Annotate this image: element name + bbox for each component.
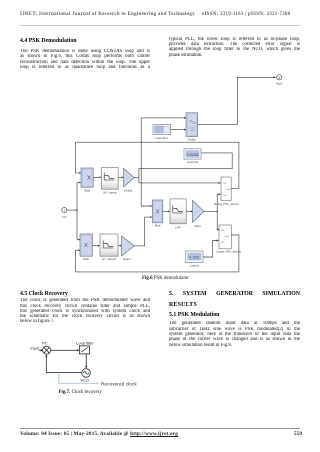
wire: main feedback line from Verilog1 output — [76, 142, 239, 188]
wire: Constant1 to Verilog2 in2 — [203, 241, 217, 258]
svg-text:Out1: Out1 — [225, 235, 231, 238]
wire: loop filter down to VCO — [85, 354, 87, 367]
svg-text:PC: PC — [42, 340, 48, 345]
block gain Gain (triangle) — [193, 200, 205, 228]
wire: FIR2 to Gain2 — [118, 245, 120, 247]
svg-text:Lower1: Lower1 — [189, 264, 199, 268]
right column paragraph 2 — [169, 321, 300, 348]
figure 7 caption — [59, 390, 102, 395]
heading 5 line 2 — [169, 302, 197, 308]
svg-text:Verilog_PSK_demod: Verilog_PSK_demod — [214, 202, 239, 206]
header right text — [202, 12, 290, 17]
wire: LPF to Gain3 — [186, 210, 191, 212]
svg-text:VCO: VCO — [80, 377, 88, 382]
footer rule — [20, 427, 300, 430]
right column paragraph 1 — [169, 37, 300, 58]
svg-text:0 10203: 0 10203 — [187, 153, 199, 157]
wire: gain node to Verilog1 input 1 — [139, 182, 219, 184]
svg-text:0 1023: 0 1023 — [190, 256, 200, 260]
wire: mixer to loop filter — [51, 349, 78, 351]
svg-text:Costas_PSK_demod: Costas_PSK_demod — [216, 250, 241, 254]
wire: input arrow into mixer — [39, 349, 41, 351]
block multiplier Mult2 — [80, 234, 92, 261]
svg-text:Loop filter: Loop filter — [76, 341, 94, 346]
block subsystem Verilog1 — [214, 177, 239, 206]
block NCO (Treble) — [186, 113, 198, 142]
svg-text:Lower12: Lower12 — [187, 160, 199, 164]
heading 4.5 — [20, 291, 68, 297]
svg-text:Input: Input — [30, 345, 40, 350]
svg-text:LP_Interp1: LP_Interp1 — [102, 257, 117, 261]
svg-text:Out1: Out1 — [276, 82, 283, 86]
svg-text:In1: In1 — [62, 215, 67, 219]
wire: VCO feedback to mixer bottom — [46, 357, 82, 373]
block loop filter — [79, 346, 89, 354]
mixer phase comparator — [43, 346, 51, 354]
svg-text:Gain: Gain — [194, 224, 201, 228]
output port Out1 — [276, 75, 283, 86]
wire: Mult3 to LPF — [163, 210, 169, 212]
svg-text:1: 1 — [63, 209, 65, 213]
wire: recovered clock tap (light blue) — [59, 373, 97, 384]
block Constant1 — [186, 251, 203, 268]
wire: loop gain output to Verilog1 in2 and Verilog2 in1 — [204, 194, 219, 229]
left column paragraph 1 — [20, 49, 150, 70]
input port In1 — [62, 208, 67, 220]
heading 5.1 — [169, 312, 219, 318]
header left text — [20, 12, 195, 17]
block multiplier Mult3 — [153, 200, 163, 227]
footer left text — [20, 431, 178, 437]
wire: FIR1 to Gain1 — [118, 176, 122, 178]
wire: Constant2 loop around to gain node — [139, 153, 232, 183]
svg-text:Mult: Mult — [84, 189, 90, 193]
svg-text:Recovered clock: Recovered clock — [101, 382, 137, 387]
svg-text:1: 1 — [278, 76, 280, 80]
block gain Gain1 row2 (triangle) — [122, 236, 135, 261]
block FIR2 LP_Interp1 — [100, 234, 118, 261]
block multiplier Mult1 — [81, 168, 93, 193]
block gain Grad1 (triangle) — [124, 168, 135, 192]
svg-text:LPF: LPF — [175, 225, 181, 229]
svg-text:Out1: Out1 — [226, 188, 232, 191]
footer page number — [294, 431, 302, 437]
svg-text:Grad1: Grad1 — [124, 189, 133, 193]
svg-text:Treble: Treble — [188, 137, 197, 141]
svg-text:Mult: Mult — [83, 257, 89, 261]
wire: In1 to both input multipliers — [67, 183, 80, 240]
block Constant2 — [184, 149, 201, 164]
figure 6 caption — [142, 276, 189, 281]
block Counter1 (Lower5) — [153, 125, 171, 140]
block subsystem Verilog2 — [216, 225, 241, 254]
wire: feedback branch to Mult3 in1 — [141, 142, 151, 206]
wire: Gain1 output stub to node — [134, 176, 139, 178]
wire: Counter1 to NCO input 2 — [171, 129, 185, 131]
oscillator VCO — [80, 369, 90, 383]
svg-text:Mult: Mult — [155, 223, 161, 227]
svg-text:Counter1: Counter1 — [156, 136, 169, 140]
svg-text:UP_Interp: UP_Interp — [103, 191, 117, 195]
heading 5 line 1 — [169, 291, 300, 297]
wire: Mult2 to FIR2 — [92, 245, 98, 247]
left column paragraph 2 — [20, 298, 150, 325]
wire: Verilog2 output feedback loop to Mult2 in2 — [76, 235, 239, 272]
svg-text:Gain1: Gain1 — [123, 257, 131, 261]
wire: feedback branch into NCO input 1 — [141, 118, 184, 142]
heading 4.4 — [20, 38, 77, 44]
wire: Mult1 to FIR1 — [93, 176, 100, 178]
wire: NCO output up to scope — [198, 77, 274, 124]
block LPF — [170, 199, 186, 229]
header rule — [20, 24, 300, 27]
wire: Gain2 output up to Mult3 in2 — [134, 217, 150, 246]
block FIR filter UP_Interp — [102, 168, 119, 195]
